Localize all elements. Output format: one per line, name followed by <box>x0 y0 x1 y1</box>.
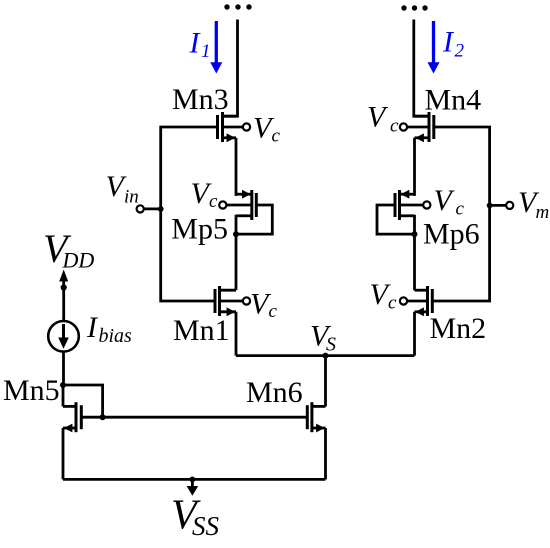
svg-text:Mn6: Mn6 <box>246 376 303 409</box>
svg-text:V: V <box>434 184 456 217</box>
node: Mp5 drain-gate junction <box>233 231 239 237</box>
wire: gate bus Mn3-Mn1 (left) <box>161 127 218 301</box>
wire: Mn1 source down to Vs rail <box>235 312 238 356</box>
transistor Mn3 <box>218 112 237 142</box>
svg-text:2: 2 <box>455 41 465 62</box>
node: Vm junction on gate bus <box>487 203 493 209</box>
power terminal VDD (arrow up) <box>59 270 68 288</box>
power terminal VSS (dot + arrow down) <box>187 477 199 496</box>
label Mp5 <box>171 213 228 246</box>
wire: Vs rail <box>236 354 415 357</box>
node Vs junction <box>323 353 329 359</box>
svg-text:1: 1 <box>201 41 211 62</box>
svg-text:in: in <box>124 187 139 208</box>
svg-text:I: I <box>189 27 202 60</box>
terminal bubble Vc of Mn3 <box>223 123 251 130</box>
continuation dots (top right) <box>401 5 427 10</box>
svg-text:c: c <box>269 301 278 322</box>
svg-text:I: I <box>442 26 455 59</box>
input terminal Vin <box>137 205 161 212</box>
node: VDD dot <box>61 284 67 290</box>
wire: gate bus Mn4-Mn2 (right) <box>432 127 489 301</box>
transistor Mp6 <box>395 190 430 220</box>
current source Ibias <box>48 321 79 352</box>
label Mn2 <box>430 312 487 345</box>
wire: Mn6 source down to Vss rail <box>324 428 327 479</box>
transistor Mn4 <box>400 112 434 142</box>
label Vc (Mn4) <box>367 101 399 137</box>
wire: Vss rail <box>63 478 326 481</box>
label Vs <box>310 320 336 356</box>
transistor Mp5 <box>219 190 256 220</box>
svg-text:DD: DD <box>62 248 95 273</box>
node: Vin junction on gate bus <box>158 206 164 212</box>
current arrow I2 <box>428 21 440 74</box>
label I2 <box>442 26 465 62</box>
transistor Mn6 <box>307 402 325 432</box>
svg-text:V: V <box>367 101 389 134</box>
wire: Mn3 source to Mp5 source <box>235 138 238 196</box>
wire: left branch top (drain of Mn3 up to dots) <box>224 20 238 117</box>
wire: Mn5 source down to Vss rail <box>62 428 65 479</box>
wire: Mp6 drain down <box>413 215 416 234</box>
svg-text:c: c <box>388 293 397 314</box>
svg-text:Mn1: Mn1 <box>173 314 230 347</box>
label Vc (Mp5) <box>191 177 219 212</box>
wire: Vs down to Mn6 drain <box>324 356 327 407</box>
wire: Mp5 drain down <box>235 215 238 234</box>
label Vc (Mn2) <box>370 278 398 314</box>
wire: Mp6 gate loop to drain node <box>377 205 415 234</box>
output terminal Vm <box>490 202 514 209</box>
label Vc (Mp6) <box>434 184 465 219</box>
node: Mn5 drain-gate junction <box>60 382 66 388</box>
label Mn6 <box>246 376 303 409</box>
label Mn1 <box>173 314 230 347</box>
svg-text:I: I <box>86 311 99 344</box>
label Mn4 <box>425 84 482 117</box>
label Vc (Mn1) <box>250 288 278 323</box>
continuation dots (top left) <box>224 4 251 9</box>
label Vin <box>106 170 139 207</box>
wire: Mp5 gate loop to drain node <box>236 205 272 234</box>
wire: Ibias to Mn5 drain node <box>62 352 65 385</box>
transistor Mn5 <box>63 402 81 432</box>
svg-text:Mn3: Mn3 <box>172 83 229 116</box>
wire: Mn5 drain up to node <box>62 385 65 406</box>
node: Mn5 gate junction <box>100 414 106 420</box>
svg-text:Mp5: Mp5 <box>171 213 228 246</box>
wire: Mn5 gate loop <box>63 385 103 417</box>
svg-text:m: m <box>536 202 550 223</box>
wire: Mp5 node down to Mn1 drain <box>235 234 238 290</box>
svg-text:c: c <box>390 116 399 137</box>
svg-text:Mn2: Mn2 <box>430 312 487 345</box>
svg-text:S: S <box>326 334 336 356</box>
wire: VDD to Ibias source <box>62 288 65 322</box>
label Mn3 <box>172 83 229 116</box>
wire: Mp6 node down to Mn2 drain <box>413 234 416 290</box>
svg-text:Mn5: Mn5 <box>3 374 60 407</box>
transistor Mn2 <box>400 286 432 316</box>
label VDD <box>43 226 94 273</box>
label Vm <box>518 186 549 223</box>
svg-text:c: c <box>209 191 218 212</box>
svg-text:c: c <box>272 126 281 147</box>
label Ibias <box>86 311 132 347</box>
svg-text:SS: SS <box>192 511 220 541</box>
wire: Mn4 source to Mp6 source <box>413 138 416 196</box>
current arrow I1 <box>210 21 222 74</box>
svg-text:c: c <box>456 199 465 220</box>
label Mp6 <box>423 218 480 251</box>
svg-text:Mn4: Mn4 <box>425 84 482 117</box>
label Vc (Mn3) <box>253 111 281 146</box>
node: Mp6 drain-gate junction <box>412 231 418 237</box>
transistor Mn1 <box>215 286 250 316</box>
label Mn5 <box>3 374 60 407</box>
svg-text:Mp6: Mp6 <box>423 218 480 251</box>
wire: right branch top (drain of Mn4 up to dots) <box>414 20 428 117</box>
wire: gate line Mn5-Mn6 <box>81 416 307 419</box>
wire: Mn2 source down to Vs rail <box>413 312 416 356</box>
label I1 <box>189 27 211 63</box>
label VSS <box>171 493 220 542</box>
svg-text:bias: bias <box>99 325 133 347</box>
